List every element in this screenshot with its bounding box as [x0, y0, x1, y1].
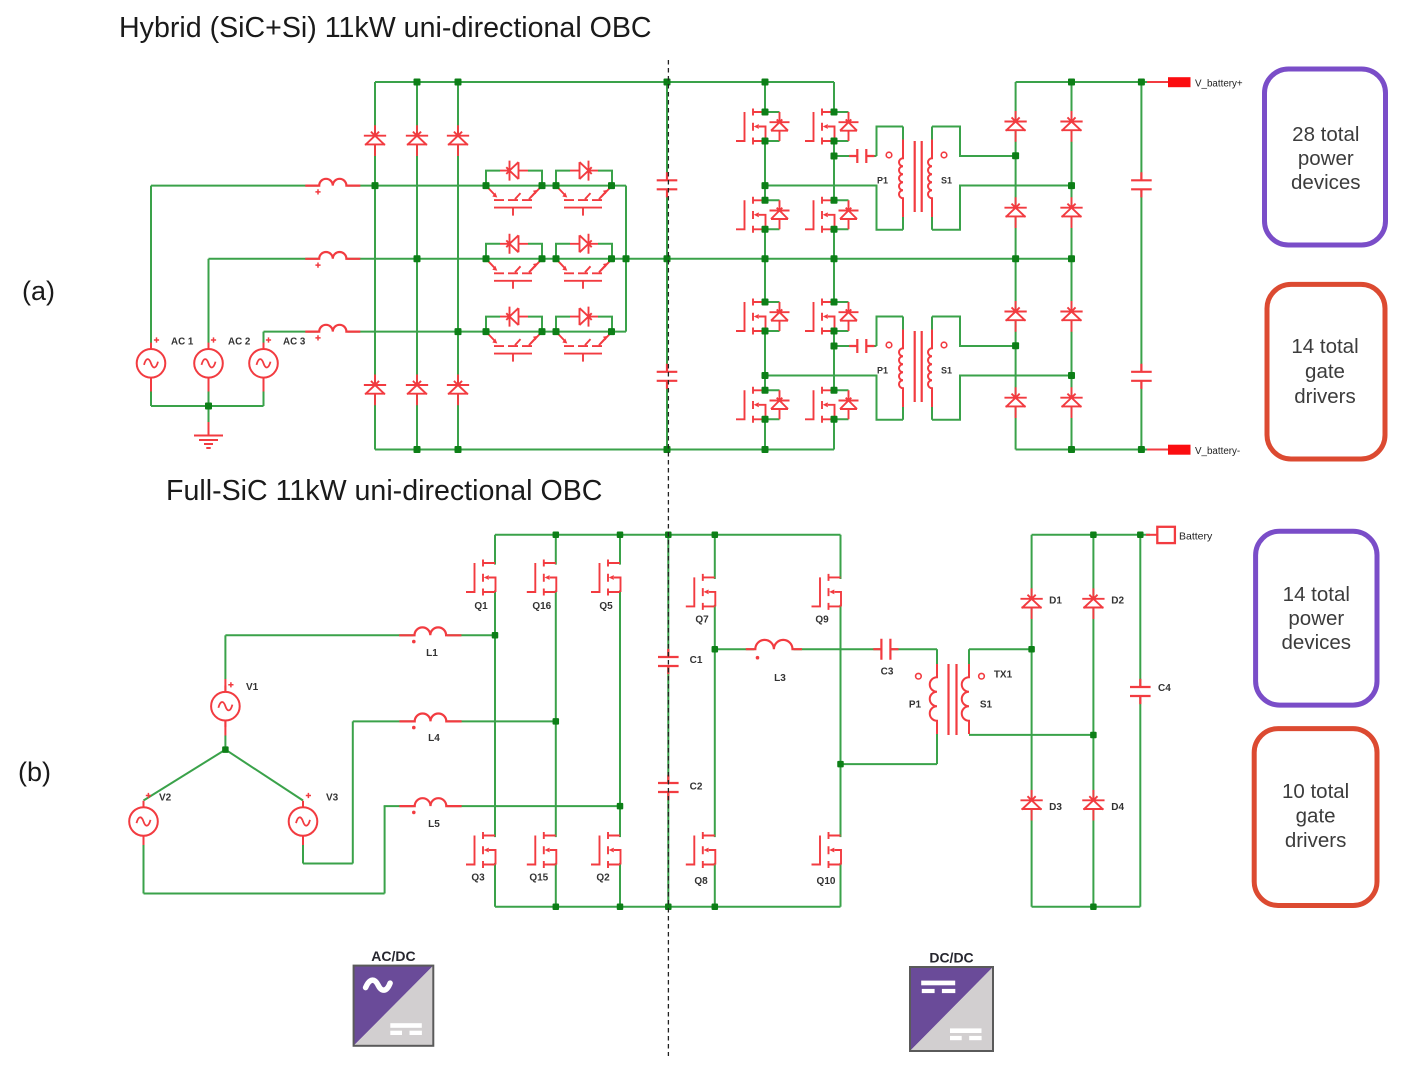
svg-text:V_battery+: V_battery+ [1195, 79, 1243, 90]
svg-text:Q8: Q8 [694, 876, 708, 887]
svg-text:D1: D1 [1049, 596, 1062, 607]
svg-text:Q2: Q2 [596, 873, 610, 884]
svg-text:TX1: TX1 [994, 670, 1013, 681]
svg-text:Q5: Q5 [599, 601, 613, 612]
svg-text:C4: C4 [1158, 683, 1171, 694]
svg-text:V_battery-: V_battery- [1195, 446, 1240, 457]
svg-text:S1: S1 [941, 176, 952, 186]
svg-text:C3: C3 [881, 667, 894, 678]
svg-text:L5: L5 [428, 819, 440, 830]
svg-text:Battery: Battery [1179, 531, 1213, 543]
svg-text:Q3: Q3 [471, 873, 485, 884]
svg-text:AC 2: AC 2 [228, 337, 251, 348]
svg-text:D3: D3 [1049, 802, 1062, 813]
svg-text:AC 1: AC 1 [171, 337, 194, 348]
svg-text:D4: D4 [1111, 802, 1124, 813]
svg-text:P1: P1 [877, 176, 888, 186]
svg-text:10 total: 10 total [1282, 780, 1349, 803]
svg-text:drivers: drivers [1285, 829, 1347, 852]
svg-text:gate: gate [1305, 360, 1345, 383]
svg-text:Q10: Q10 [817, 876, 836, 887]
svg-text:14 total: 14 total [1283, 583, 1350, 606]
svg-text:D2: D2 [1111, 596, 1124, 607]
svg-text:devices: devices [1282, 631, 1352, 654]
svg-text:C1: C1 [690, 655, 703, 666]
svg-text:Hybrid (SiC+Si) 11kW uni-direc: Hybrid (SiC+Si) 11kW uni-directional OBC [119, 12, 652, 44]
svg-text:Q1: Q1 [474, 601, 488, 612]
svg-text:V3: V3 [326, 792, 339, 803]
svg-text:S1: S1 [980, 700, 993, 711]
svg-text:AC 3: AC 3 [283, 337, 306, 348]
svg-text:S1: S1 [941, 366, 952, 376]
svg-text:AC/DC: AC/DC [371, 948, 415, 964]
svg-text:drivers: drivers [1294, 385, 1356, 408]
svg-text:power: power [1288, 607, 1344, 630]
svg-text:V1: V1 [246, 682, 259, 693]
svg-text:devices: devices [1291, 171, 1361, 194]
svg-text:28 total: 28 total [1292, 123, 1359, 146]
svg-text:L1: L1 [426, 648, 438, 659]
svg-text:L3: L3 [774, 673, 786, 684]
svg-text:Full-SiC 11kW uni-directional: Full-SiC 11kW uni-directional OBC [166, 475, 602, 507]
svg-text:(b): (b) [18, 757, 51, 787]
svg-text:power: power [1298, 147, 1354, 170]
svg-text:P1: P1 [877, 366, 888, 376]
svg-text:(a): (a) [22, 276, 55, 306]
svg-text:P1: P1 [909, 700, 922, 711]
svg-text:14 total: 14 total [1291, 335, 1358, 358]
svg-text:DC/DC: DC/DC [929, 950, 973, 966]
svg-text:Q9: Q9 [815, 615, 829, 626]
svg-text:Q7: Q7 [695, 615, 709, 626]
svg-text:Q15: Q15 [529, 873, 548, 884]
svg-text:Q16: Q16 [532, 601, 551, 612]
svg-text:L4: L4 [428, 733, 440, 744]
svg-text:gate: gate [1296, 805, 1336, 828]
svg-text:C2: C2 [690, 782, 703, 793]
svg-text:V2: V2 [159, 792, 172, 803]
